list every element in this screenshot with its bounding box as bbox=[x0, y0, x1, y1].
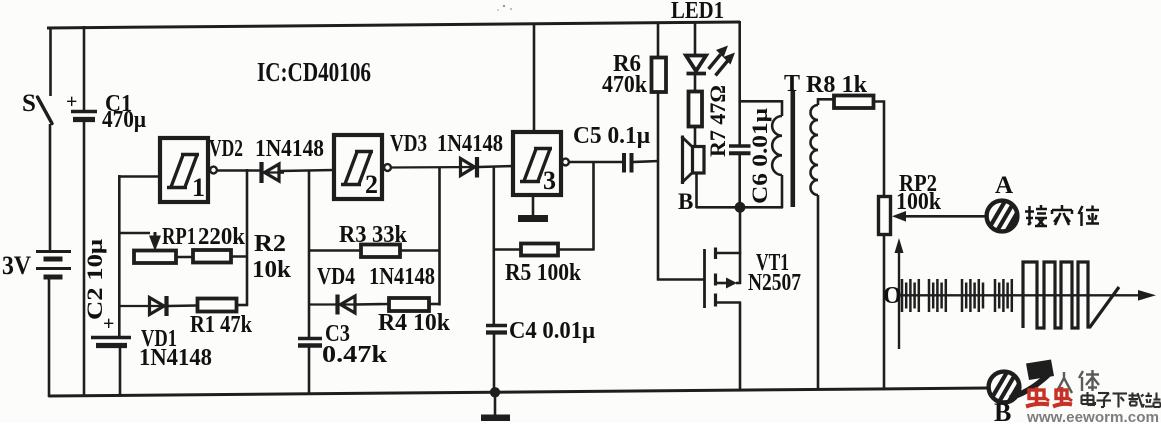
junction dot node B bbox=[735, 202, 746, 213]
svg-text:O: O bbox=[883, 283, 902, 309]
label LED1 bbox=[671, 0, 724, 24]
svg-text:VD4: VD4 bbox=[317, 264, 355, 290]
electrode A (acupoint terminal) bbox=[987, 172, 1024, 231]
capacitor C5 0.1μ bbox=[573, 123, 659, 173]
wire top supply rail bbox=[47, 22, 740, 28]
wire switch to battery bbox=[49, 124, 52, 251]
label IC:CD40106 bbox=[257, 57, 371, 87]
svg-text:C6 0.01μ: C6 0.01μ bbox=[747, 107, 772, 204]
wire stage1 timing node vertical bbox=[118, 175, 121, 337]
wire IC supply drop to inverter3 bbox=[533, 23, 536, 133]
switch S bbox=[22, 90, 52, 124]
wire R2 to feedback node bbox=[231, 255, 248, 258]
svg-text:470μ: 470μ bbox=[102, 107, 146, 133]
wire left rail upper segment bbox=[49, 27, 52, 97]
resistor R8 1k bbox=[806, 72, 884, 197]
LED LED1 bbox=[686, 21, 735, 92]
svg-text:VD3: VD3 bbox=[390, 131, 427, 157]
transistor VT1 N2507 (MOSFET) bbox=[705, 248, 802, 309]
wire stage1 feedback vertical bbox=[246, 169, 249, 306]
wire gate lead bbox=[657, 278, 704, 281]
wire supply corner to transformer bbox=[739, 21, 783, 102]
svg-text:www.eeworm.com: www.eeworm.com bbox=[1026, 410, 1159, 423]
transformer T primary winding bbox=[772, 100, 782, 208]
watermark www.eeworm.com bbox=[1026, 410, 1159, 426]
resistor R1 47k bbox=[190, 299, 253, 339]
svg-text:R1 47k: R1 47k bbox=[190, 312, 253, 338]
svg-text:R5 100k: R5 100k bbox=[505, 260, 582, 286]
svg-text:1N4148: 1N4148 bbox=[369, 264, 435, 290]
wire RP1 to R2 bbox=[176, 256, 193, 259]
svg-text:R2: R2 bbox=[254, 231, 286, 257]
resistor R2 10k bbox=[193, 231, 292, 283]
svg-text:S: S bbox=[22, 90, 36, 117]
capacitor C3 0.47k bbox=[298, 321, 388, 395]
capacitor C2 10μ bbox=[82, 238, 131, 396]
svg-text:B: B bbox=[678, 189, 693, 214]
svg-text:100k: 100k bbox=[896, 189, 942, 215]
svg-text:220k: 220k bbox=[198, 224, 246, 250]
svg-text:0.47k: 0.47k bbox=[322, 342, 388, 368]
svg-text:470k: 470k bbox=[602, 72, 648, 98]
svg-text:C4 0.01μ: C4 0.01μ bbox=[509, 318, 595, 344]
potentiometer RP1 220k bbox=[119, 224, 246, 263]
electrode B (body terminal) bbox=[989, 372, 1026, 427]
potentiometer RP2 100k bbox=[879, 171, 942, 390]
svg-text:VD2: VD2 bbox=[209, 136, 243, 162]
svg-text:R3 33k: R3 33k bbox=[339, 222, 408, 248]
resistor R6 470k bbox=[602, 22, 666, 281]
wire bottom ground rail bbox=[49, 388, 988, 396]
wire stage3 input vertical bbox=[492, 166, 495, 326]
svg-text:RP1: RP1 bbox=[162, 224, 196, 250]
battery GB 3V bbox=[2, 251, 71, 280]
wire inverter1 input bbox=[118, 175, 160, 178]
diode VD1 1N4148 bbox=[119, 296, 212, 371]
label 人体 (human body) bbox=[1056, 370, 1099, 393]
wire inv1 output to VD2 bbox=[217, 171, 281, 173]
diode VD3 1N4148 bbox=[390, 131, 513, 178]
speaker B bbox=[678, 136, 704, 215]
svg-text:R8 1k: R8 1k bbox=[806, 72, 868, 98]
svg-text:1: 1 bbox=[192, 173, 205, 202]
inverter U1b (CD40106 gate 2) bbox=[334, 135, 391, 199]
svg-text:T: T bbox=[784, 71, 800, 97]
svg-text:10k: 10k bbox=[252, 257, 292, 283]
transformer T core bbox=[784, 71, 800, 207]
junction dot C4-ground rail bbox=[490, 387, 500, 397]
waveform vertical axis bbox=[883, 238, 904, 349]
inverter U1a (CD40106 gate 1) bbox=[160, 138, 217, 202]
diode VD2 1N4148 bbox=[209, 136, 324, 183]
resistor R3 33k bbox=[309, 222, 440, 257]
resistor R7 47Ω bbox=[689, 85, 731, 157]
svg-text:3: 3 bbox=[543, 166, 556, 195]
svg-text:C5 0.1μ: C5 0.1μ bbox=[573, 123, 650, 149]
svg-text:N2507: N2507 bbox=[748, 270, 801, 296]
svg-text:B: B bbox=[994, 398, 1011, 423]
wire battery to bottom rail bbox=[48, 280, 51, 398]
svg-text:2: 2 bbox=[365, 170, 378, 199]
wire VT1 drain up to node B bbox=[739, 207, 742, 254]
label 接穴位 (connect to acupoint) bbox=[1025, 205, 1099, 226]
waveform horizontal axis bbox=[899, 290, 1156, 301]
capacitor C1 470μ bbox=[66, 26, 146, 396]
wire inv3 output to C5 bbox=[569, 161, 623, 164]
capacitor C6 0.01μ bbox=[729, 101, 772, 207]
svg-text:R4 10k: R4 10k bbox=[378, 310, 451, 336]
wire stage2 timing node vertical bbox=[308, 170, 311, 339]
diode VD4 1N4148 bbox=[309, 264, 435, 315]
wire VD2 to inverter2 input bbox=[280, 170, 334, 171]
svg-text:LED1: LED1 bbox=[671, 0, 724, 24]
svg-text:1N4148: 1N4148 bbox=[255, 136, 324, 162]
arrow pointing to electrode B bbox=[1010, 360, 1054, 399]
capacitor C4 0.01μ bbox=[486, 318, 595, 392]
wire stage2 feedback vertical bbox=[438, 168, 441, 306]
svg-text:1N4148: 1N4148 bbox=[139, 345, 212, 371]
svg-text:+: + bbox=[66, 91, 77, 113]
resistor R5 100k bbox=[494, 163, 594, 286]
wire inv2 output to VD3 bbox=[391, 166, 477, 169]
svg-text:1N4148: 1N4148 bbox=[437, 131, 503, 157]
transformer T secondary winding bbox=[811, 99, 834, 390]
wire VT1 source to ground rail bbox=[739, 302, 742, 391]
svg-text:A: A bbox=[995, 172, 1013, 199]
svg-text:R7 47Ω: R7 47Ω bbox=[705, 85, 730, 157]
inverter U1c (CD40106 gate 3) bbox=[513, 132, 569, 195]
svg-text:IC:CD40106: IC:CD40106 bbox=[257, 57, 371, 87]
svg-text:C2 10μ: C2 10μ bbox=[82, 238, 107, 320]
wiper arrow from electrode A to RP2 bbox=[892, 211, 987, 222]
ground symbol (inverter 3) bbox=[518, 195, 548, 222]
watermark red bug logos bbox=[1026, 387, 1072, 407]
wire top rail scan speck bbox=[497, 5, 512, 11]
wire node B horizontal bbox=[696, 206, 783, 209]
waveform pulse bursts bbox=[902, 279, 1012, 312]
watermark 电子下载站 text bbox=[1082, 392, 1161, 408]
resistor R4 10k bbox=[378, 298, 451, 336]
svg-text:3V: 3V bbox=[2, 251, 31, 280]
waveform output square wave and ramp bbox=[1023, 262, 1119, 328]
ground symbol (main rail) bbox=[481, 393, 510, 421]
